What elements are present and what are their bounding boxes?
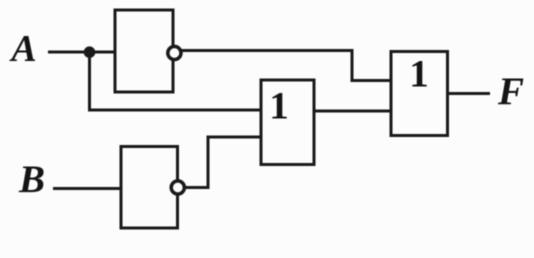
wire U2 output vertical rise <box>207 137 210 189</box>
inverter U1 inversion bubble <box>168 46 181 59</box>
wire U3 output to U4 lower input <box>314 110 391 113</box>
wire U4 output lead <box>448 92 491 95</box>
svg-text:1: 1 <box>409 53 429 96</box>
wire into U3 lower input <box>207 136 262 139</box>
wire U1 output vertical drop <box>351 49 354 81</box>
wire A input lead <box>48 51 115 54</box>
wire U1 output horizontal <box>182 49 353 52</box>
svg-text:1: 1 <box>269 85 289 128</box>
wire into U4 upper input <box>351 79 392 82</box>
svg-text:A: A <box>9 28 36 70</box>
inverter U2 box <box>121 147 178 229</box>
wire U2 output horizontal <box>185 186 208 189</box>
svg-text:B: B <box>18 158 45 201</box>
inverter U2 inversion bubble <box>171 181 184 194</box>
junction dot on net A <box>84 46 96 58</box>
gate U4 box <box>391 52 448 136</box>
wire B input lead <box>53 187 121 190</box>
wire net A branch horizontal to U3 <box>88 109 261 112</box>
gate U3 box <box>261 80 314 165</box>
svg-text:F: F <box>497 70 524 113</box>
inverter U1 box <box>115 10 173 92</box>
wire net A branch vertical <box>88 52 91 110</box>
